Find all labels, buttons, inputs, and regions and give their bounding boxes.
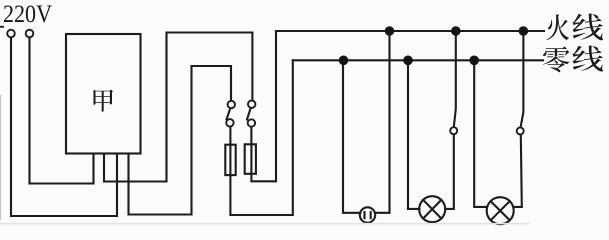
svg-text:220V: 220V [3,1,52,28]
